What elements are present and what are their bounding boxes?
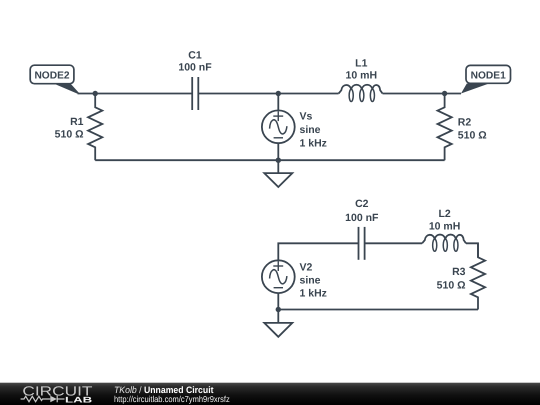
svg-text:510 Ω: 510 Ω xyxy=(55,128,84,140)
svg-text:R1: R1 xyxy=(70,116,84,128)
svg-text:10 mH: 10 mH xyxy=(429,221,461,233)
wire top rail mid xyxy=(198,93,338,95)
node flag NODE1 xyxy=(461,65,511,93)
node flag NODE2 xyxy=(30,65,79,93)
svg-text:V2: V2 xyxy=(300,261,313,273)
svg-text:100 nF: 100 nF xyxy=(178,62,212,74)
junction node Vs top xyxy=(276,91,281,96)
label L1 xyxy=(346,58,378,82)
svg-text:sine: sine xyxy=(300,274,321,286)
svg-text:R3: R3 xyxy=(452,266,466,278)
svg-text:510 Ω: 510 Ω xyxy=(458,129,487,141)
inductor L1 xyxy=(339,85,383,102)
junction node V2 bottom xyxy=(276,307,281,312)
label C2 xyxy=(345,198,379,224)
svg-text:510 Ω: 510 Ω xyxy=(437,280,466,292)
voltage source Vs xyxy=(262,94,295,161)
svg-text:10 mH: 10 mH xyxy=(346,70,378,82)
ground top circuit xyxy=(264,160,292,187)
inductor L2 xyxy=(422,235,466,252)
wire L2 to R3 corner xyxy=(466,243,478,257)
svg-text:1 kHz: 1 kHz xyxy=(300,288,327,300)
svg-text:R2: R2 xyxy=(458,116,472,128)
svg-text:Vs: Vs xyxy=(300,111,313,123)
capacitor C1 xyxy=(192,77,198,110)
ground bottom circuit xyxy=(264,310,292,337)
voltage source V2 xyxy=(262,260,295,309)
svg-text:L2: L2 xyxy=(438,208,450,220)
wire bottom rail top circuit xyxy=(95,159,444,161)
resistor R2 xyxy=(438,94,452,161)
svg-text:C2: C2 xyxy=(355,198,369,210)
svg-text:100 nF: 100 nF xyxy=(345,212,379,224)
wire V2 to C2 xyxy=(278,243,358,260)
footer logo resistor-diode squiggle xyxy=(21,396,65,403)
wire top rail left xyxy=(78,93,193,95)
svg-text:LAB: LAB xyxy=(65,396,92,405)
svg-text:NODE1: NODE1 xyxy=(471,71,506,82)
svg-text:http://circuitlab.com/c7ymh9r9: http://circuitlab.com/c7ymh9r9xrsfz xyxy=(114,394,230,404)
junction node R1 top xyxy=(93,91,98,96)
resistor R1 xyxy=(88,94,102,161)
label R2 xyxy=(458,116,487,141)
junction node Vs bottom xyxy=(276,158,281,163)
resistor R3 xyxy=(471,243,485,309)
svg-text:C1: C1 xyxy=(188,50,202,62)
capacitor C2 xyxy=(359,227,365,260)
wire C2 to L2 xyxy=(365,242,423,244)
junction node R2 top xyxy=(442,91,447,96)
wire top rail right xyxy=(383,93,462,95)
label Vs xyxy=(300,111,327,150)
svg-text:1 kHz: 1 kHz xyxy=(300,138,327,150)
footer bar xyxy=(0,383,540,405)
svg-text:L1: L1 xyxy=(355,58,367,70)
wire bottom rail bottom circuit xyxy=(278,309,478,311)
label L2 xyxy=(429,208,461,233)
svg-text:sine: sine xyxy=(300,124,321,136)
label V2 xyxy=(300,261,327,299)
label C1 xyxy=(178,50,212,74)
label R1 xyxy=(55,116,84,140)
svg-text:NODE2: NODE2 xyxy=(34,71,69,82)
label R3 xyxy=(437,266,466,291)
